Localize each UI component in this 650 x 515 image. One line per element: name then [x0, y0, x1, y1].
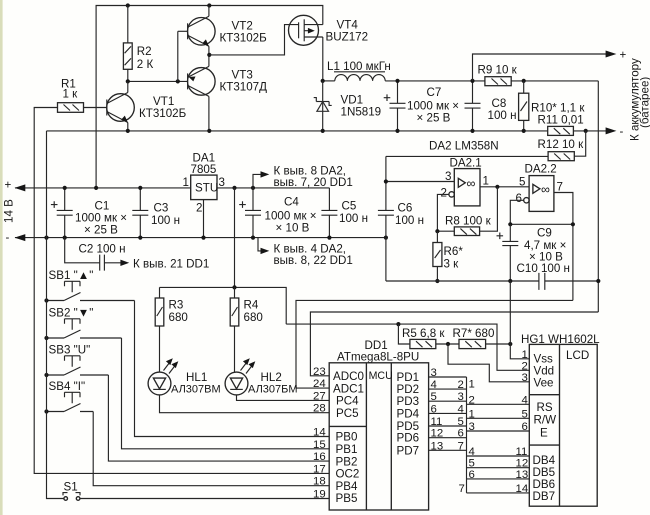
resistor R11 (shunt) — [538, 114, 584, 136]
svg-text:PB4: PB4 — [336, 480, 358, 493]
svg-text:R8 100 к: R8 100 к — [445, 215, 492, 228]
node: SB3 left contact on common rail — [44, 373, 48, 377]
svg-text:+: + — [620, 49, 627, 62]
svg-text:R3: R3 — [169, 299, 184, 312]
node: sense vertical on ground rail — [596, 279, 600, 283]
svg-text:3: 3 — [469, 421, 475, 433]
wire: Vee tap to LCD pin 3 — [448, 344, 529, 382]
arrow: to pin 4 DA2 / 8,22 DD1 — [258, 238, 353, 267]
svg-text:DA2 LM358N: DA2 LM358N — [429, 140, 499, 153]
node: C4 bottom — [251, 236, 255, 240]
svg-text:выв. 8, 22 DD1: выв. 8, 22 DD1 — [274, 254, 353, 267]
display HG1 WH1602L (LCD) — [521, 333, 600, 506]
svg-text:3: 3 — [458, 391, 464, 403]
wire: divider sense vertical down to ADC0 line — [597, 81, 599, 312]
arrow: +14V input — [15, 184, 26, 191]
voltage regulator DA1 7805 — [183, 152, 225, 238]
resistor R10* — [519, 81, 586, 131]
resistor R4 — [230, 287, 263, 372]
svg-text:PB1: PB1 — [336, 443, 358, 456]
svg-text:L1 100 мкГн: L1 100 мкГн — [327, 60, 391, 73]
resistor R5 — [402, 327, 445, 349]
arrow: to pin 8 DA2 / 7,20 DD1 — [253, 165, 353, 190]
wire: +5V rail from DA1 to C5 — [217, 187, 329, 189]
svg-text:5: 5 — [522, 408, 528, 420]
node: ground line end at DA2 input vertical — [384, 236, 388, 240]
node: C4 top / reference arrow — [251, 186, 255, 190]
wire: local ground rail with C10 in series — [386, 280, 598, 282]
svg-text:VT1: VT1 — [153, 95, 174, 108]
svg-text:13: 13 — [431, 440, 444, 452]
svg-text:14: 14 — [313, 427, 326, 439]
node: VT2 base vertical joins VT3 base line — [176, 79, 180, 83]
svg-text:× 25 В: × 25 В — [417, 112, 451, 125]
svg-text:LCD: LCD — [566, 349, 589, 362]
svg-text:SB1 "▲": SB1 "▲" — [49, 269, 94, 282]
wire: VT4 source vertical to L1 node — [322, 37, 324, 81]
resistor R12 — [386, 131, 586, 161]
svg-text:R6*: R6* — [444, 245, 464, 258]
svg-text:6: 6 — [516, 192, 522, 205]
node: pin3 line tap — [384, 179, 388, 183]
svg-text:SB3 "U": SB3 "U" — [49, 344, 91, 357]
node: R8 left / R6 top / pin2 junction — [435, 229, 439, 233]
wire: ground vertical down to LCD Vss — [510, 281, 529, 359]
node: SB2 left contact on common rail — [44, 336, 48, 340]
svg-text:DA2.1: DA2.1 — [450, 157, 482, 170]
node: C1 top — [63, 186, 67, 190]
inductor L1 — [323, 60, 485, 81]
wire: DA2.1 pin3 input line — [386, 181, 454, 183]
svg-text:КТ3102Б: КТ3102Б — [220, 32, 268, 45]
capacitor C9 — [497, 224, 567, 281]
pushbutton SB3 U — [47, 344, 109, 376]
node: R5 tap on +5V line — [396, 322, 400, 326]
svg-text:S1: S1 — [64, 481, 78, 494]
wire: SB4 to MCU pin 18 — [93, 412, 329, 486]
capacitor C8 — [465, 81, 517, 131]
svg-text:5: 5 — [431, 391, 437, 403]
node: output / R8 feedback tap — [495, 185, 499, 189]
capacitor C10 — [539, 273, 545, 290]
svg-text:STU: STU — [195, 182, 218, 195]
svg-text:4: 4 — [522, 394, 528, 406]
svg-text:-: - — [620, 125, 624, 138]
wire: top supply rail — [96, 6, 323, 188]
svg-text:SB4 "I": SB4 "I" — [49, 380, 86, 393]
node: SB1 left contact on common rail — [44, 298, 48, 302]
node: VD1 bottom on minus bus — [321, 129, 325, 133]
resistor R9 — [478, 64, 518, 86]
node: VT2/VT3 emitter junction — [207, 53, 211, 57]
arrow: minus output to battery — [606, 127, 617, 134]
svg-text:2: 2 — [196, 202, 202, 215]
pushbutton SB4 I — [47, 380, 94, 412]
svg-text:R2: R2 — [137, 45, 152, 58]
switch S1 — [63, 481, 329, 501]
svg-text:OC2: OC2 — [336, 468, 360, 481]
svg-text:× 10 В: × 10 В — [276, 222, 310, 235]
node: VT3 collector on minus bus — [207, 129, 211, 133]
wire: DA2.2 pin6 to C9 node — [510, 200, 523, 224]
wire: R3/R4 top line — [160, 287, 287, 324]
node: VT2 collector junction — [207, 3, 211, 7]
node: SB rail on ground bus — [44, 236, 48, 240]
node: R9/R10 divider tap — [522, 79, 526, 83]
svg-text:1: 1 — [469, 408, 475, 420]
pin leads: MCU right to bus — [429, 367, 467, 452]
resistor R2 — [123, 6, 153, 82]
capacitor C2 — [65, 238, 126, 271]
svg-text:КТ3102Б: КТ3102Б — [139, 107, 187, 120]
svg-text:24: 24 — [313, 378, 326, 390]
LED HL2 — [225, 358, 297, 395]
wire: bus vertical — [466, 377, 468, 493]
wire: HL1 cathode to pin 28 — [160, 395, 330, 413]
diode VD1 1N5819 — [314, 81, 381, 131]
svg-text:PB2: PB2 — [336, 455, 358, 468]
node: +5V take-off to LED section — [232, 186, 236, 190]
svg-text:17: 17 — [313, 463, 326, 475]
svg-text:3: 3 — [522, 372, 528, 384]
node: C3 bottom — [138, 236, 142, 240]
svg-text:C6: C6 — [398, 202, 413, 215]
svg-text:выв. 7, 20 DD1: выв. 7, 20 DD1 — [274, 176, 353, 189]
svg-text:16: 16 — [313, 451, 326, 463]
svg-text:1: 1 — [483, 175, 489, 188]
capacitor C6 — [378, 202, 424, 228]
svg-text:5: 5 — [458, 416, 464, 428]
transistor VT1 KT3102B — [107, 81, 187, 130]
wire: emitter junction to VT4 gate — [209, 25, 298, 55]
node: R7 right / Vss junction — [508, 342, 512, 346]
node: C3 top — [138, 186, 142, 190]
capacitor C7 — [384, 81, 459, 131]
svg-text:BUZ172: BUZ172 — [326, 31, 369, 44]
svg-text:11: 11 — [516, 446, 528, 458]
bus exits to LCD — [459, 379, 530, 495]
node: VT1 emitter on minus bus — [126, 129, 130, 133]
svg-text:E: E — [540, 427, 548, 440]
svg-text:4: 4 — [431, 379, 437, 391]
svg-text:MCU: MCU — [369, 370, 393, 382]
op-amp DA2.1 — [441, 157, 489, 206]
svg-text:C7: C7 — [427, 86, 442, 99]
svg-text:1 к: 1 к — [63, 88, 79, 101]
node: R2 top junction — [126, 3, 130, 7]
svg-text:+: + — [5, 179, 12, 192]
svg-text:PD4: PD4 — [397, 407, 420, 420]
svg-text:HL1: HL1 — [186, 371, 207, 384]
wire: R2 bottom / VT1 collector / VT3 base line — [128, 80, 188, 82]
svg-text:PD3: PD3 — [397, 395, 420, 408]
wire: ADC1 line from DA2.2 output to pin 24 — [296, 300, 573, 388]
left page edge stripe — [0, 0, 3, 515]
svg-text:11: 11 — [431, 416, 443, 428]
wire: SB1 to MCU pin 14 — [135, 301, 330, 437]
svg-text:23: 23 — [313, 366, 326, 378]
svg-text:2: 2 — [469, 394, 475, 406]
svg-text:2: 2 — [522, 360, 528, 372]
svg-text:2: 2 — [441, 187, 447, 200]
node: R5/R7 junction (Vee tap) — [446, 342, 450, 346]
svg-text:18: 18 — [313, 476, 326, 488]
capacitor C3 — [132, 188, 180, 238]
svg-text:DB7: DB7 — [533, 490, 556, 503]
capacitor C1 — [51, 188, 127, 238]
wire: -14V input rail / ground bus — [15, 237, 386, 239]
wire: R1 to MCU pin 17 (OC2) — [34, 108, 329, 474]
svg-text:7: 7 — [458, 440, 464, 452]
arrow: -14V input — [15, 234, 26, 241]
resistor R3 — [155, 287, 188, 372]
svg-text:ATmega8L-8PU: ATmega8L-8PU — [337, 351, 419, 364]
svg-text:5: 5 — [519, 176, 525, 189]
resistor R7* — [453, 327, 495, 349]
svg-text:PD2: PD2 — [397, 383, 420, 396]
wire: VT2 base vertical — [177, 31, 179, 81]
wire: R5 left leg — [398, 324, 410, 344]
svg-text:RS: RS — [537, 401, 553, 414]
svg-text:12: 12 — [431, 428, 444, 440]
svg-text:3: 3 — [431, 367, 437, 379]
svg-text:C5: C5 — [342, 200, 357, 213]
wire: ADC0 line from divider sense to pin 23 — [310, 312, 598, 376]
wire: R7 right to ground vertical — [486, 343, 511, 345]
svg-text:14: 14 — [516, 483, 529, 495]
svg-text:АЛ307БМ: АЛ307БМ — [248, 384, 298, 396]
svg-text:R12 10 к: R12 10 к — [538, 138, 585, 151]
arrow: plus output — [606, 51, 617, 58]
svg-text:6: 6 — [522, 421, 528, 433]
node: R4 top / +5 branch — [232, 285, 236, 289]
wire: SB common rail — [47, 131, 64, 499]
wire: +14V input rail — [15, 187, 191, 189]
svg-text:3 к: 3 к — [444, 258, 460, 271]
wire: C9 top rail — [510, 223, 573, 225]
wire: DA2 input vertical (R12 line corner down to ground rail) — [385, 156, 387, 281]
node: C8 top / plus take-off — [470, 79, 474, 83]
pushbutton SB2 ▼ — [47, 307, 122, 339]
node: R6 bottom on local ground rail — [435, 279, 439, 283]
node: SB4 left contact on common rail — [44, 409, 48, 413]
node: R11 right / R12 junction — [584, 129, 588, 133]
svg-text:HL2: HL2 — [261, 371, 282, 384]
svg-text:К выв. 21 DD1: К выв. 21 DD1 — [133, 258, 209, 271]
svg-text:Vee: Vee — [534, 377, 554, 390]
svg-text:ADC0: ADC0 — [333, 370, 364, 383]
svg-text:13: 13 — [516, 469, 529, 481]
svg-text:PB0: PB0 — [336, 431, 358, 444]
svg-text:1N5819: 1N5819 — [341, 106, 382, 119]
svg-text:∞: ∞ — [467, 177, 476, 191]
wire: DA2.1 output line to DA2.2 pin5 — [480, 186, 529, 188]
wire: plus output to battery — [473, 54, 607, 81]
svg-text:C9: C9 — [537, 227, 552, 240]
svg-text:(батарее): (батарее) — [639, 77, 650, 128]
wire: DA2.2 output down to ADC1 line — [554, 193, 573, 301]
svg-text:C2 100 н: C2 100 н — [79, 243, 126, 256]
svg-text:1: 1 — [522, 349, 528, 361]
node: C9 top / pin6 — [508, 222, 512, 226]
svg-text:R7* 680: R7* 680 — [453, 327, 495, 340]
svg-text:PD6: PD6 — [397, 432, 420, 445]
capacitor C5 — [321, 188, 368, 238]
svg-text:2 К: 2 К — [137, 58, 154, 71]
svg-text:× 25 В: × 25 В — [84, 224, 118, 237]
transistor VT2 KT3102B — [178, 6, 267, 55]
op-amp DA2.2 — [516, 163, 563, 212]
svg-text:19: 19 — [313, 489, 326, 501]
node: R2 bottom / VT1 collector — [126, 79, 130, 83]
resistor R8 — [437, 187, 497, 236]
arrow: to pin 21 DD1 — [120, 260, 129, 266]
svg-text:100 н: 100 н — [488, 109, 517, 122]
node: R10 bottom on minus bus — [522, 129, 526, 133]
svg-text:6: 6 — [431, 403, 437, 415]
node: C9 bottom / Vss vertical — [508, 279, 512, 283]
svg-text:6: 6 — [458, 428, 464, 440]
node: C5 bottom — [327, 236, 331, 240]
svg-text:3: 3 — [219, 176, 225, 189]
svg-text:12: 12 — [516, 458, 529, 470]
node: output vertical on C9 rail — [571, 222, 575, 226]
wire: +5V branch down to LED resistors — [234, 188, 236, 288]
svg-text:27: 27 — [313, 390, 326, 402]
svg-text:R/W: R/W — [534, 414, 557, 427]
svg-text:C4: C4 — [284, 196, 299, 209]
svg-text:3: 3 — [445, 170, 451, 183]
node: C8 bottom — [470, 129, 474, 133]
svg-text:680: 680 — [244, 311, 263, 324]
svg-text:2: 2 — [458, 379, 464, 391]
svg-text:АЛ307ВМ: АЛ307ВМ — [171, 384, 221, 396]
svg-text:PB5: PB5 — [336, 492, 358, 505]
svg-text:SB2 "▼": SB2 "▼" — [49, 307, 94, 320]
svg-text:28: 28 — [313, 403, 326, 415]
svg-text:R5 6,8 к: R5 6,8 к — [402, 327, 445, 340]
svg-text:-: - — [6, 231, 10, 244]
svg-text:7: 7 — [557, 181, 563, 194]
svg-text:7805: 7805 — [191, 163, 217, 176]
svg-text:R4: R4 — [244, 299, 259, 312]
svg-text:100 н: 100 н — [395, 214, 424, 227]
svg-text:7: 7 — [459, 483, 465, 495]
resistor R1 — [58, 78, 84, 113]
transistor VT3 KT3107D — [188, 55, 268, 131]
svg-text:5: 5 — [469, 458, 475, 470]
svg-text:C10 100 н: C10 100 н — [517, 262, 570, 275]
svg-text:1: 1 — [469, 379, 475, 391]
pushbutton SB1 ▲ — [47, 269, 135, 301]
wire: minus bus (emitters / VD1 / C7 / C8 / shunt line) — [47, 130, 607, 132]
svg-text:680: 680 — [169, 311, 188, 324]
svg-text:ADC1: ADC1 — [333, 382, 364, 395]
svg-text:∞: ∞ — [541, 183, 550, 197]
resistor R6* — [433, 231, 463, 281]
wire: +5V line to LCD Vdd — [286, 324, 529, 370]
svg-text:14 В: 14 В — [3, 199, 16, 223]
wire: R1 right to VT1 base — [84, 107, 107, 109]
node: DA1 pin2 on ground bus — [201, 236, 205, 240]
node: C7 top — [395, 79, 399, 83]
IC DD1 ATmega8L-8PU (MCU) — [329, 339, 428, 510]
svg-text:15: 15 — [313, 439, 326, 451]
svg-text:1: 1 — [183, 176, 189, 189]
svg-text:PC4: PC4 — [336, 395, 359, 408]
pin numbers: MCU left — [313, 366, 326, 501]
wire: SB3 to MCU pin 16 — [108, 375, 329, 461]
svg-text:4: 4 — [469, 446, 475, 458]
wire: DA2.1 pin2 to R8 junction — [437, 194, 449, 231]
svg-text:PC5: PC5 — [336, 407, 359, 420]
wire: SB2 to MCU pin 15 — [122, 338, 330, 449]
svg-text:DA2.2: DA2.2 — [525, 163, 557, 176]
wire: R5/R7 link — [436, 343, 459, 345]
wire: R9 right to divider node and across to sense vertical — [511, 80, 598, 82]
transistor VT4 BUZ172 — [289, 15, 369, 45]
node: top rail feed on +14 rail — [94, 186, 98, 190]
svg-text:100 н: 100 н — [151, 214, 180, 227]
svg-text:R11 0,01: R11 0,01 — [538, 114, 584, 127]
svg-text:6: 6 — [469, 469, 475, 481]
svg-text:PD7: PD7 — [397, 444, 420, 457]
svg-text:4: 4 — [458, 403, 464, 415]
node: C1 bottom — [63, 236, 67, 240]
wire: HL2 cathode to pin 27 — [237, 395, 330, 401]
svg-text:100 н: 100 н — [339, 212, 368, 225]
svg-text:R9 10 к: R9 10 к — [478, 64, 518, 77]
node: VD1 / L1 node — [321, 79, 325, 83]
svg-text:КТ3107Д: КТ3107Д — [220, 81, 268, 94]
LED HL1 — [148, 358, 221, 395]
svg-text:C3: C3 — [154, 202, 169, 215]
node: C7 bottom — [395, 129, 399, 133]
capacitor C4 — [239, 188, 316, 238]
